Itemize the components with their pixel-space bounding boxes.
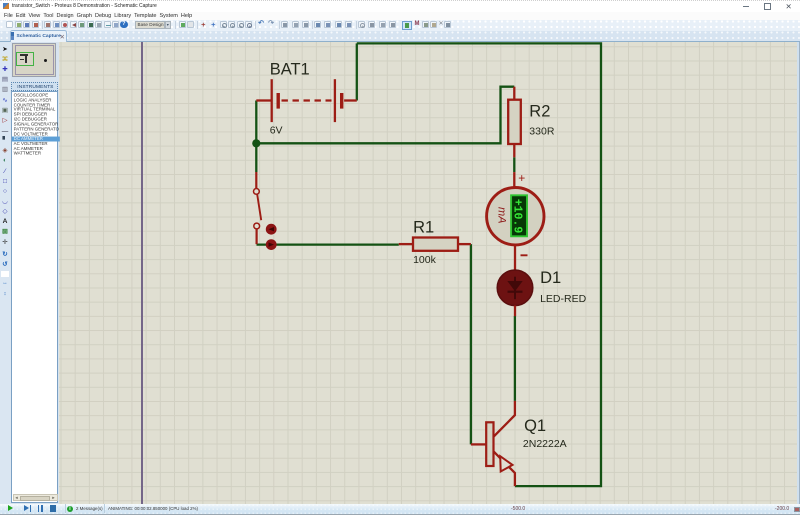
LED D1 xyxy=(497,270,533,306)
wire R1 to Q1 base xyxy=(469,244,471,444)
svg-text:R1: R1 xyxy=(413,219,434,237)
wire battery left vertical xyxy=(255,101,257,173)
resistor R1 xyxy=(398,243,412,245)
battery BAT1 xyxy=(256,79,356,122)
svg-text:+: + xyxy=(518,171,525,185)
list scrollbar xyxy=(13,494,58,501)
svg-text:D1: D1 xyxy=(540,269,561,287)
overview panel xyxy=(12,43,56,77)
toolbar xyxy=(0,20,800,32)
svg-text:R2: R2 xyxy=(529,103,550,121)
wire switch to R1 xyxy=(256,244,398,246)
menu bar xyxy=(0,12,800,21)
wire R2 to ammeter xyxy=(513,158,515,173)
switch toggle buttons xyxy=(265,224,276,235)
wire LED to Q1 collector xyxy=(513,316,515,401)
transistor Q1 xyxy=(493,401,514,437)
ammeter U1 xyxy=(513,172,515,188)
svg-text:mA: mA xyxy=(495,207,507,224)
status bar xyxy=(0,504,800,514)
resistor R2 xyxy=(513,87,515,100)
svg-text:BAT1: BAT1 xyxy=(269,61,309,79)
svg-text:100k: 100k xyxy=(413,254,437,266)
svg-text:330R: 330R xyxy=(529,126,555,138)
svg-text:2N2222A: 2N2222A xyxy=(522,438,566,450)
ammeter display xyxy=(511,196,527,237)
tab bar xyxy=(0,31,800,43)
instruments list xyxy=(11,91,58,503)
node junction dot xyxy=(252,139,260,147)
svg-text:Q1: Q1 xyxy=(524,417,546,435)
svg-text:+10.9: +10.9 xyxy=(510,199,523,234)
svg-text:LED-RED: LED-RED xyxy=(540,293,587,305)
instruments header xyxy=(11,82,58,91)
left icon strip xyxy=(0,42,11,504)
sheet boundary (purple) xyxy=(141,42,142,504)
svg-text:6V: 6V xyxy=(269,125,282,137)
switch SW1 xyxy=(256,172,261,244)
polarity - xyxy=(520,255,527,257)
wire battery right vertical xyxy=(355,44,357,101)
title bar xyxy=(0,0,800,12)
wire junction to R2 xyxy=(256,87,514,144)
wire main loop top/right/bottom xyxy=(356,44,600,487)
